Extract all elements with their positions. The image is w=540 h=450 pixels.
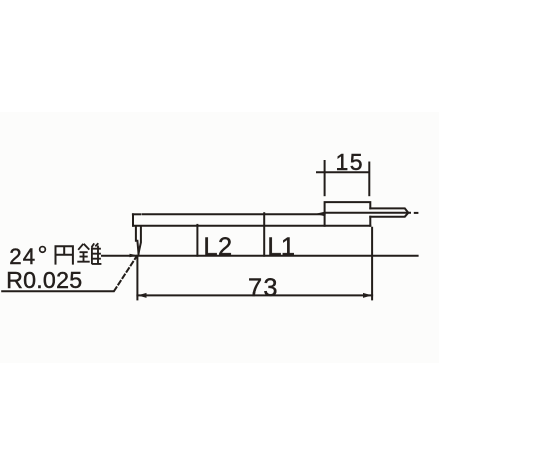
arrowhead leader at stylus tip (130, 254, 138, 257)
wire leader line R0.025 dashed (114, 256, 137, 291)
wire extension line 15 left (324, 161, 326, 195)
label degree symbol (40, 247, 46, 253)
svg-text:R0.025: R0.025 (6, 267, 82, 293)
node shaft (370, 208, 408, 216)
wire divider L2/L1 (263, 213, 265, 256)
wire arm bottom edge (133, 225, 370, 227)
wire dimension line 73 (137, 294, 372, 296)
node stylus holder (136, 226, 141, 254)
arrowhead dimension 73 right (363, 293, 372, 298)
wire arm top edge (133, 213, 140, 215)
label kanji EN (circle) (55, 245, 73, 264)
wire shaft centerline (325, 212, 410, 214)
svg-text:L2: L2 (203, 233, 232, 261)
wire extension line 73 left (136, 256, 138, 299)
scan background region (0, 112, 439, 363)
wire extension line 73 right (371, 228, 373, 300)
wire arm left edge (132, 214, 134, 225)
svg-text:73: 73 (248, 274, 279, 302)
arrowhead dimension 73 left (138, 293, 147, 298)
wire centerline end dash (415, 212, 418, 214)
svg-text:L1: L1 (267, 233, 294, 261)
wire tick L2 left (196, 225, 198, 256)
wire leader line R0.025 underline (2, 290, 113, 292)
svg-text:15: 15 (336, 149, 365, 175)
wire dimension line 15 (317, 171, 369, 173)
label kanji SUI (cone) (77, 243, 101, 264)
node mounting block (325, 202, 371, 226)
svg-text:24: 24 (9, 244, 36, 269)
wire extension line 15 right (368, 163, 370, 196)
wire reference surface line (102, 255, 418, 257)
arrowhead on arm line at block (315, 212, 324, 216)
